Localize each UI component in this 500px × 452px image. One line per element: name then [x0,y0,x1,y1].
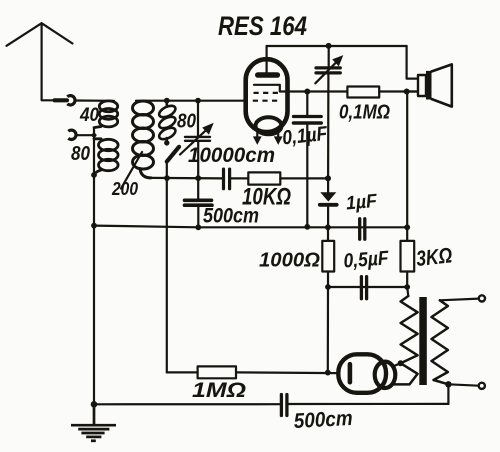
node 1uF wire end [404,224,410,230]
svg-text:0,5µF: 0,5µF [343,247,390,272]
node top wire / trimmer [326,43,332,49]
wire lower to speaker [407,90,418,92]
wire y178 left [151,177,222,180]
trimmer capacitor [315,46,343,83]
transformer T1 core [419,297,427,385]
svg-text:1MΩ: 1MΩ [192,379,246,402]
tube V1 filament [256,117,282,134]
coil L80 left [94,139,118,175]
tube V1 anode stub [266,46,268,60]
svg-text:10000cm: 10000cm [188,144,275,167]
resistor 0,1MOhm [347,87,379,98]
svg-text:1000Ω: 1000Ω [259,250,320,272]
coil L40 [94,101,118,128]
node 500cm / wire y227 [195,224,201,230]
svg-text:0,1MΩ: 0,1MΩ [339,102,390,124]
coil L200 [133,101,154,178]
wire diode line to 1M wire [327,287,329,373]
wire secondary bottom to bus [447,384,449,404]
capacitor 1uF [360,219,365,239]
node secondary bottom [445,381,451,387]
wire grid-leak vertical [166,178,168,372]
node speaker / 3K line [404,89,410,95]
wire bottom bus left [94,403,280,405]
node coil junction [91,172,97,178]
svg-text:RES 164: RES 164 [218,11,307,41]
coil L80 feedback [157,101,177,142]
wire 1M left [167,371,198,373]
svg-text:500cm: 500cm [203,205,259,228]
wire trimmer to diode [327,75,329,179]
node 1M wire / diode line [325,370,331,376]
node ground junction [91,401,98,408]
node 1000 / wire y287 [325,284,331,290]
node diode line / wire y178 [325,175,331,181]
node switch / wire y178 [164,175,170,181]
node grid wire / 0,1uF [304,89,310,95]
node diode / wire y227 [325,224,331,230]
tube V1 filament arrow left [253,130,262,145]
wire 0,1M to speaker [379,90,418,92]
node varcap / wire y178 [195,175,201,181]
wire plug1 to coil40 [75,99,114,102]
tube V1 anode [258,60,278,76]
resistor 3KOhm [401,92,415,288]
wire left bus lower [93,226,95,405]
label 200 pointer [121,152,142,189]
capacitor 500cm upper plates [185,200,213,205]
tube V2 electrode bar [348,364,353,382]
svg-text:500cm: 500cm [293,407,353,433]
resistor 1MOhm [198,366,236,378]
tube V1 inner electrode [254,85,287,92]
resistor 1000Ohm [322,227,334,287]
terminal output upper [479,295,485,301]
node switch contact [164,140,169,145]
wire V2 to tap [393,363,401,366]
wire 500cm to wire y227 [197,207,199,227]
variable capacitor arrow [180,123,214,155]
node top wire / coil80fb [164,98,170,104]
svg-text:1µF: 1µF [345,191,379,215]
svg-text:80: 80 [177,111,196,133]
transformer T1 secondary [432,300,449,384]
node bus / wire y227 [91,223,97,229]
ground [71,404,116,441]
wire 3K bottom to primary [407,287,408,296]
terminal output lower [479,383,485,389]
wire secondary bottom to terminal [448,384,478,385]
tube V2 envelope [338,354,386,393]
wire 10000cm to 10K [231,177,248,179]
tube V1 envelope [246,59,288,132]
antenna [7,23,73,100]
node plug2 junction [92,133,97,138]
wire 1M right [236,371,339,374]
wire grid (top) [136,100,246,102]
switch lever [167,147,179,162]
wire anode top [267,45,407,47]
wire plug2 to bus [76,134,95,136]
svg-text:200: 200 [111,179,138,199]
wire bottom bus right [289,403,449,405]
svg-text:40: 40 [79,105,99,126]
node 0,1uF / wire y227 [304,224,310,230]
tube V1 grid dashes [253,93,281,101]
wire left bus upper [93,128,95,226]
socket 80 [68,130,76,139]
wire switch to wire y178 [166,162,168,179]
wire top to speaker [407,46,418,79]
diode D1 [320,178,337,227]
tube V2 base circle [375,362,396,388]
node transformer tap [398,360,404,366]
variable capacitor plates [185,137,210,141]
capacitor 10000cm plates [224,169,230,189]
svg-text:0,1µF: 0,1µF [281,123,329,150]
variable capacitor line upper [197,101,199,136]
node 3K / wire y287 [404,284,410,290]
wire secondary top to terminal [440,299,479,301]
transformer T1 primary [394,296,418,384]
speaker LS [418,64,452,106]
antenna plug pin [55,98,68,102]
wire y227 left [94,226,198,228]
svg-text:3KΩ: 3KΩ [415,243,453,271]
wire grid right [285,90,347,92]
resistor 10KOhm [248,172,280,184]
capacitor 500cm lower plates [281,395,287,416]
wire y287 [328,286,407,288]
capacitor 0,5uF [361,277,366,299]
antenna socket 40 [67,96,75,105]
tube V1 filament arrow right [274,130,283,145]
wire 10K to diode line [280,177,328,179]
capacitor 0,1uF [294,92,322,227]
wire y227 right [198,226,407,228]
svg-text:80: 80 [71,143,90,165]
node top wire / tuning cap [195,98,201,104]
wire varcap to 500cm [197,142,199,199]
